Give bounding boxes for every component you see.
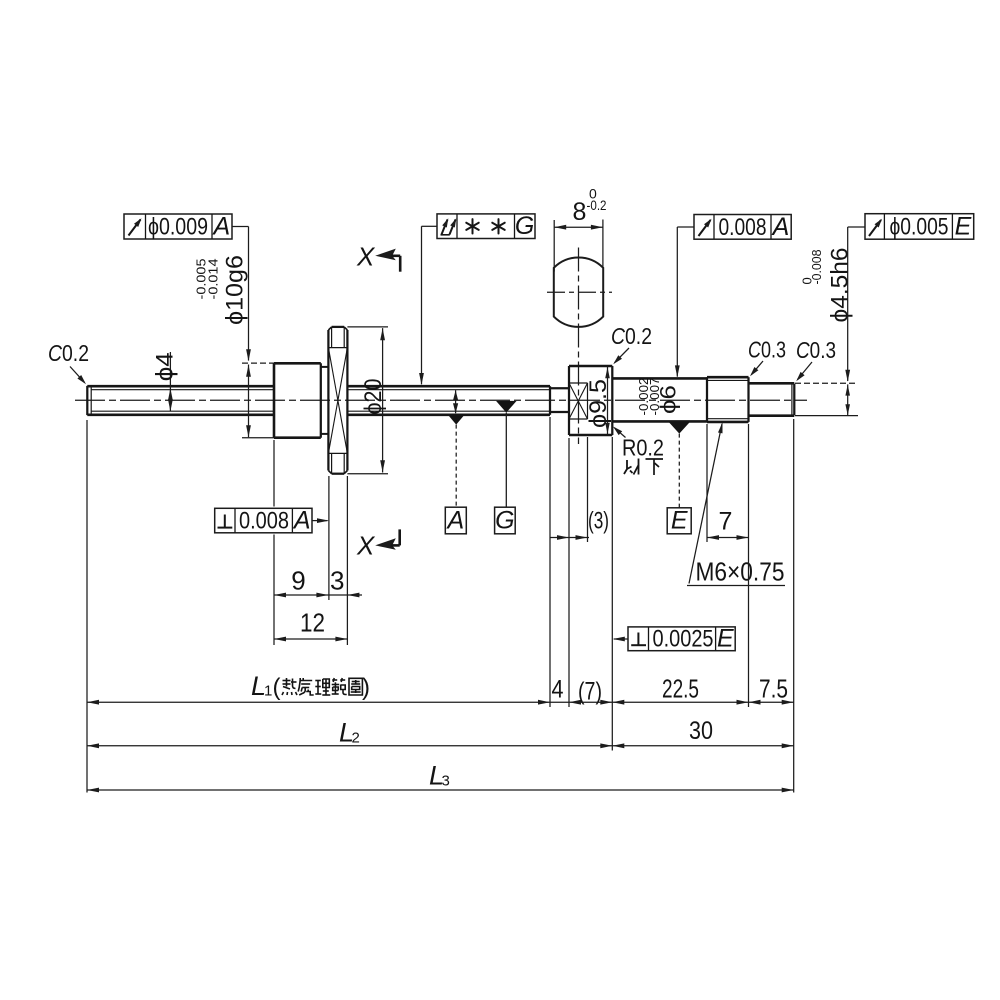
section cut symbol X (top) <box>356 241 400 271</box>
dimension φ4 on left thread <box>151 352 178 411</box>
dimension 9 and 3 <box>274 566 362 598</box>
svg-text:(: ( <box>273 674 281 701</box>
dimension 7 (M6 length) <box>707 507 749 540</box>
svg-text:4: 4 <box>552 676 564 704</box>
svg-text:A: A <box>292 507 311 535</box>
svg-text:G: G <box>495 506 514 534</box>
svg-text:0.0025: 0.0025 <box>653 625 714 652</box>
label R0.2 fillet with leader <box>613 427 664 461</box>
relief neck between journal and flange <box>321 367 329 434</box>
flange φ20 with cross pattern <box>328 327 347 474</box>
svg-text:-0.008: -0.008 <box>809 250 824 285</box>
svg-text:8: 8 <box>573 198 587 226</box>
feature control frame ↗ 0.008 A <box>694 213 791 241</box>
dimension φ20 flange <box>347 327 388 474</box>
extension line from M6 start x=707 <box>706 424 708 542</box>
svg-text:M6×0.75: M6×0.75 <box>696 557 785 587</box>
dimension line L3 <box>87 761 794 793</box>
dimension text L1 (熱處理範圍 heat-treated range) <box>251 671 370 701</box>
svg-text:C0.2: C0.2 <box>611 323 652 349</box>
label C0.2 left end chamfer <box>48 340 89 384</box>
extension line from shaft right end x=793.7 <box>793 419 795 793</box>
feature control frame ⊥ 0.0025 E with arrow <box>613 624 735 652</box>
leader from ** G frame to thread OD <box>419 226 437 385</box>
extension line from block right edge x=612.3 <box>611 437 613 751</box>
shaft φ4.5h6 end section <box>749 383 795 415</box>
svg-text:0.008: 0.008 <box>719 214 767 241</box>
label φ10g6 with tolerance -0.005/-0.014 <box>194 255 249 325</box>
svg-text:A: A <box>446 506 465 534</box>
dimension 8 0/-0.2 across flats <box>554 186 606 272</box>
datum A triangle, leader and box <box>445 415 466 534</box>
svg-text:ϕ9.5: ϕ9.5 <box>585 379 612 428</box>
label φ6 with tolerance -0.002/-0.007 <box>637 377 681 415</box>
datum E triangle, leader and box <box>667 422 691 535</box>
section cut symbol X (bottom) <box>356 529 400 560</box>
datum G triangle, leader and box <box>495 401 517 534</box>
svg-text:C0.3: C0.3 <box>748 337 786 363</box>
label φ4.5h6 with tolerance 0/-0.008 <box>800 248 854 323</box>
shaft φ10g6 journal cylinder <box>274 363 321 437</box>
note M6×0.75 with leader <box>687 422 785 586</box>
svg-text:2: 2 <box>352 730 360 747</box>
shaft left threaded section φ4 <box>87 386 274 415</box>
extension line from thread end x=550 <box>549 417 551 707</box>
svg-text:ϕ10g6: ϕ10g6 <box>222 255 249 325</box>
svg-text:0.008: 0.008 <box>239 508 289 535</box>
svg-text:ϕ4: ϕ4 <box>151 352 178 381</box>
svg-text:9: 9 <box>291 566 305 596</box>
svg-text:C0.3: C0.3 <box>796 337 836 363</box>
shaft φ6 section <box>612 378 707 421</box>
svg-text:R0.2: R0.2 <box>622 435 664 461</box>
double arrow across thread root at datum A <box>453 390 458 413</box>
chain dimension line L1 / 4 / (7) / 22.5 / 7.5 <box>87 700 794 705</box>
svg-text:(3): (3) <box>588 507 609 534</box>
M6×0.75 thread section <box>707 377 749 422</box>
extension line from M6 end x=748.5 <box>748 424 750 707</box>
label 以下 (or less) <box>624 459 663 476</box>
svg-text:E: E <box>955 213 972 241</box>
feature control frame ↗ φ0.005 E <box>865 213 974 241</box>
feature control frame ↗ φ0.009 A <box>124 213 232 241</box>
extension line from journal left edge x=274 (lower) <box>273 535 275 646</box>
svg-text:C0.2: C0.2 <box>48 340 89 366</box>
svg-text:A: A <box>771 213 790 241</box>
svg-text:12: 12 <box>300 608 325 638</box>
extension line from flats end x=587.5 <box>587 437 589 542</box>
svg-text:(7): (7) <box>578 678 602 706</box>
svg-text:-0.014: -0.014 <box>206 259 221 300</box>
svg-text:): ) <box>362 674 370 701</box>
label C0.2 block chamfer <box>611 323 652 364</box>
svg-text:30: 30 <box>689 717 713 745</box>
φ9.5 block with wrench flats (X mark) <box>569 366 612 435</box>
svg-text:3: 3 <box>442 773 450 790</box>
svg-text:-0.2: -0.2 <box>587 197 607 213</box>
svg-text:22.5: 22.5 <box>662 674 699 704</box>
svg-text:E: E <box>717 624 734 652</box>
svg-text:ϕ0.009: ϕ0.009 <box>148 214 208 241</box>
dimension 12 <box>274 608 347 642</box>
svg-text:X: X <box>356 530 376 560</box>
svg-text:-0.007: -0.007 <box>648 377 662 415</box>
wire horizontal centerline of section view circle <box>547 291 612 293</box>
label C0.3 at shaft end chamfer <box>796 337 836 381</box>
extension line at shaft left end x=87 <box>86 420 88 793</box>
shaft middle ball-screw thread section <box>347 386 550 415</box>
leader from 0.008 A frame to φ6 surface <box>675 227 694 377</box>
svg-text:A: A <box>211 213 230 241</box>
svg-text:1: 1 <box>264 683 272 700</box>
svg-text:E: E <box>671 507 688 535</box>
dimension φ9.5 flats block <box>585 367 612 434</box>
svg-text:7: 7 <box>719 507 733 535</box>
svg-text:3: 3 <box>330 566 344 596</box>
svg-text:X: X <box>356 241 376 271</box>
feature control frame ↗↗ ** G <box>437 212 535 240</box>
svg-text:ϕ4.5h6: ϕ4.5h6 <box>826 248 853 323</box>
svg-text:7.5: 7.5 <box>759 674 788 704</box>
relief neck before wrench-flats block <box>550 388 569 412</box>
extension line from flange right edge x=347.4 <box>346 476 348 645</box>
svg-text:G: G <box>515 212 534 240</box>
feature control frame ⊥ 0.008 A with arrow <box>215 507 329 535</box>
extension line from block left edge x=569 <box>568 438 570 707</box>
dimension leader and arrows for φ10g6 <box>232 227 276 438</box>
dimension leader and arrows for φ4.5h6 <box>795 227 865 416</box>
section X-X view: circle with two flats (8 across) <box>554 257 603 326</box>
label C0.3 at M6/φ4.5 step <box>748 337 786 377</box>
dimension (3) flats length <box>550 507 609 540</box>
dimension line L2 and 30 <box>87 717 794 748</box>
extension line from journal left edge x=274 (upper) <box>273 440 275 507</box>
svg-text:ϕ20: ϕ20 <box>360 379 387 415</box>
svg-text:ϕ0.005: ϕ0.005 <box>890 214 949 241</box>
wire main horizontal centerline of shaft <box>75 399 807 401</box>
extension line from flange left edge x=328.9 <box>328 476 330 600</box>
wire vertical centerline through section view and flats block <box>578 248 580 445</box>
